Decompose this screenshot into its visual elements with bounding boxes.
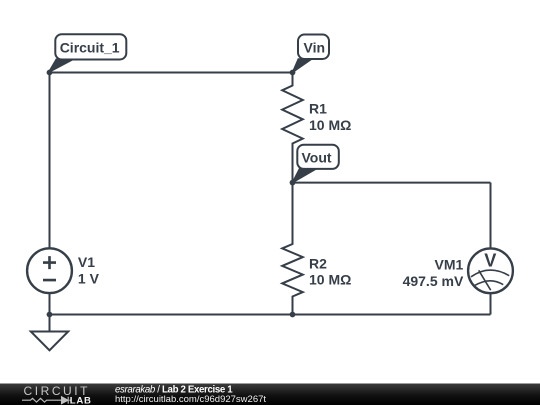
net label Circuit_1 bbox=[49, 34, 127, 72]
footer bar bbox=[0, 384, 540, 405]
wire bottom horizontal bbox=[50, 314, 491, 316]
svg-text:V: V bbox=[484, 250, 496, 270]
svg-text:Vin: Vin bbox=[304, 40, 326, 56]
wire right vertical to VM1 top bbox=[490, 183, 492, 249]
svg-text:Vout: Vout bbox=[302, 150, 332, 166]
net label Vin bbox=[293, 35, 330, 73]
wire Vout horizontal bbox=[293, 182, 491, 184]
svg-text:R2: R2 bbox=[309, 255, 327, 271]
voltmeter VM1 bbox=[468, 248, 513, 293]
wire left vertical node to V1 top bbox=[49, 73, 51, 249]
junction bottom left bbox=[47, 312, 53, 318]
svg-text:R1: R1 bbox=[309, 101, 327, 117]
resistor R1 bbox=[282, 73, 303, 183]
net label Vout bbox=[293, 145, 339, 183]
VM1 meter arcs bbox=[471, 270, 509, 277]
wire VM1 bottom bbox=[490, 293, 492, 314]
svg-text:1 V: 1 V bbox=[78, 270, 100, 286]
wire top horizontal Circuit_1 to Vin bbox=[50, 72, 293, 74]
svg-text:10 MΩ: 10 MΩ bbox=[309, 117, 351, 133]
svg-text:V1: V1 bbox=[78, 254, 95, 270]
node Vout bbox=[290, 180, 296, 186]
svg-text:Circuit_1: Circuit_1 bbox=[60, 40, 120, 56]
svg-text:VM1: VM1 bbox=[435, 257, 464, 273]
voltage source V1 bbox=[27, 248, 72, 293]
svg-text:10 MΩ: 10 MΩ bbox=[309, 272, 351, 288]
node Vin bbox=[290, 70, 296, 76]
svg-text:http://circuitlab.com/c96d927s: http://circuitlab.com/c96d927sw267t bbox=[115, 394, 266, 405]
node Circuit_1 bbox=[47, 70, 53, 76]
resistor R2 bbox=[282, 183, 303, 315]
svg-text:LAB: LAB bbox=[70, 395, 92, 405]
logo resistor-diode graphic bbox=[22, 397, 71, 404]
junction bottom R2 bbox=[290, 312, 296, 318]
wire V1 bottom to ground bbox=[49, 293, 51, 331]
svg-text:497.5 mV: 497.5 mV bbox=[403, 273, 464, 289]
ground bbox=[31, 332, 68, 351]
VM1 needle bbox=[479, 270, 491, 290]
